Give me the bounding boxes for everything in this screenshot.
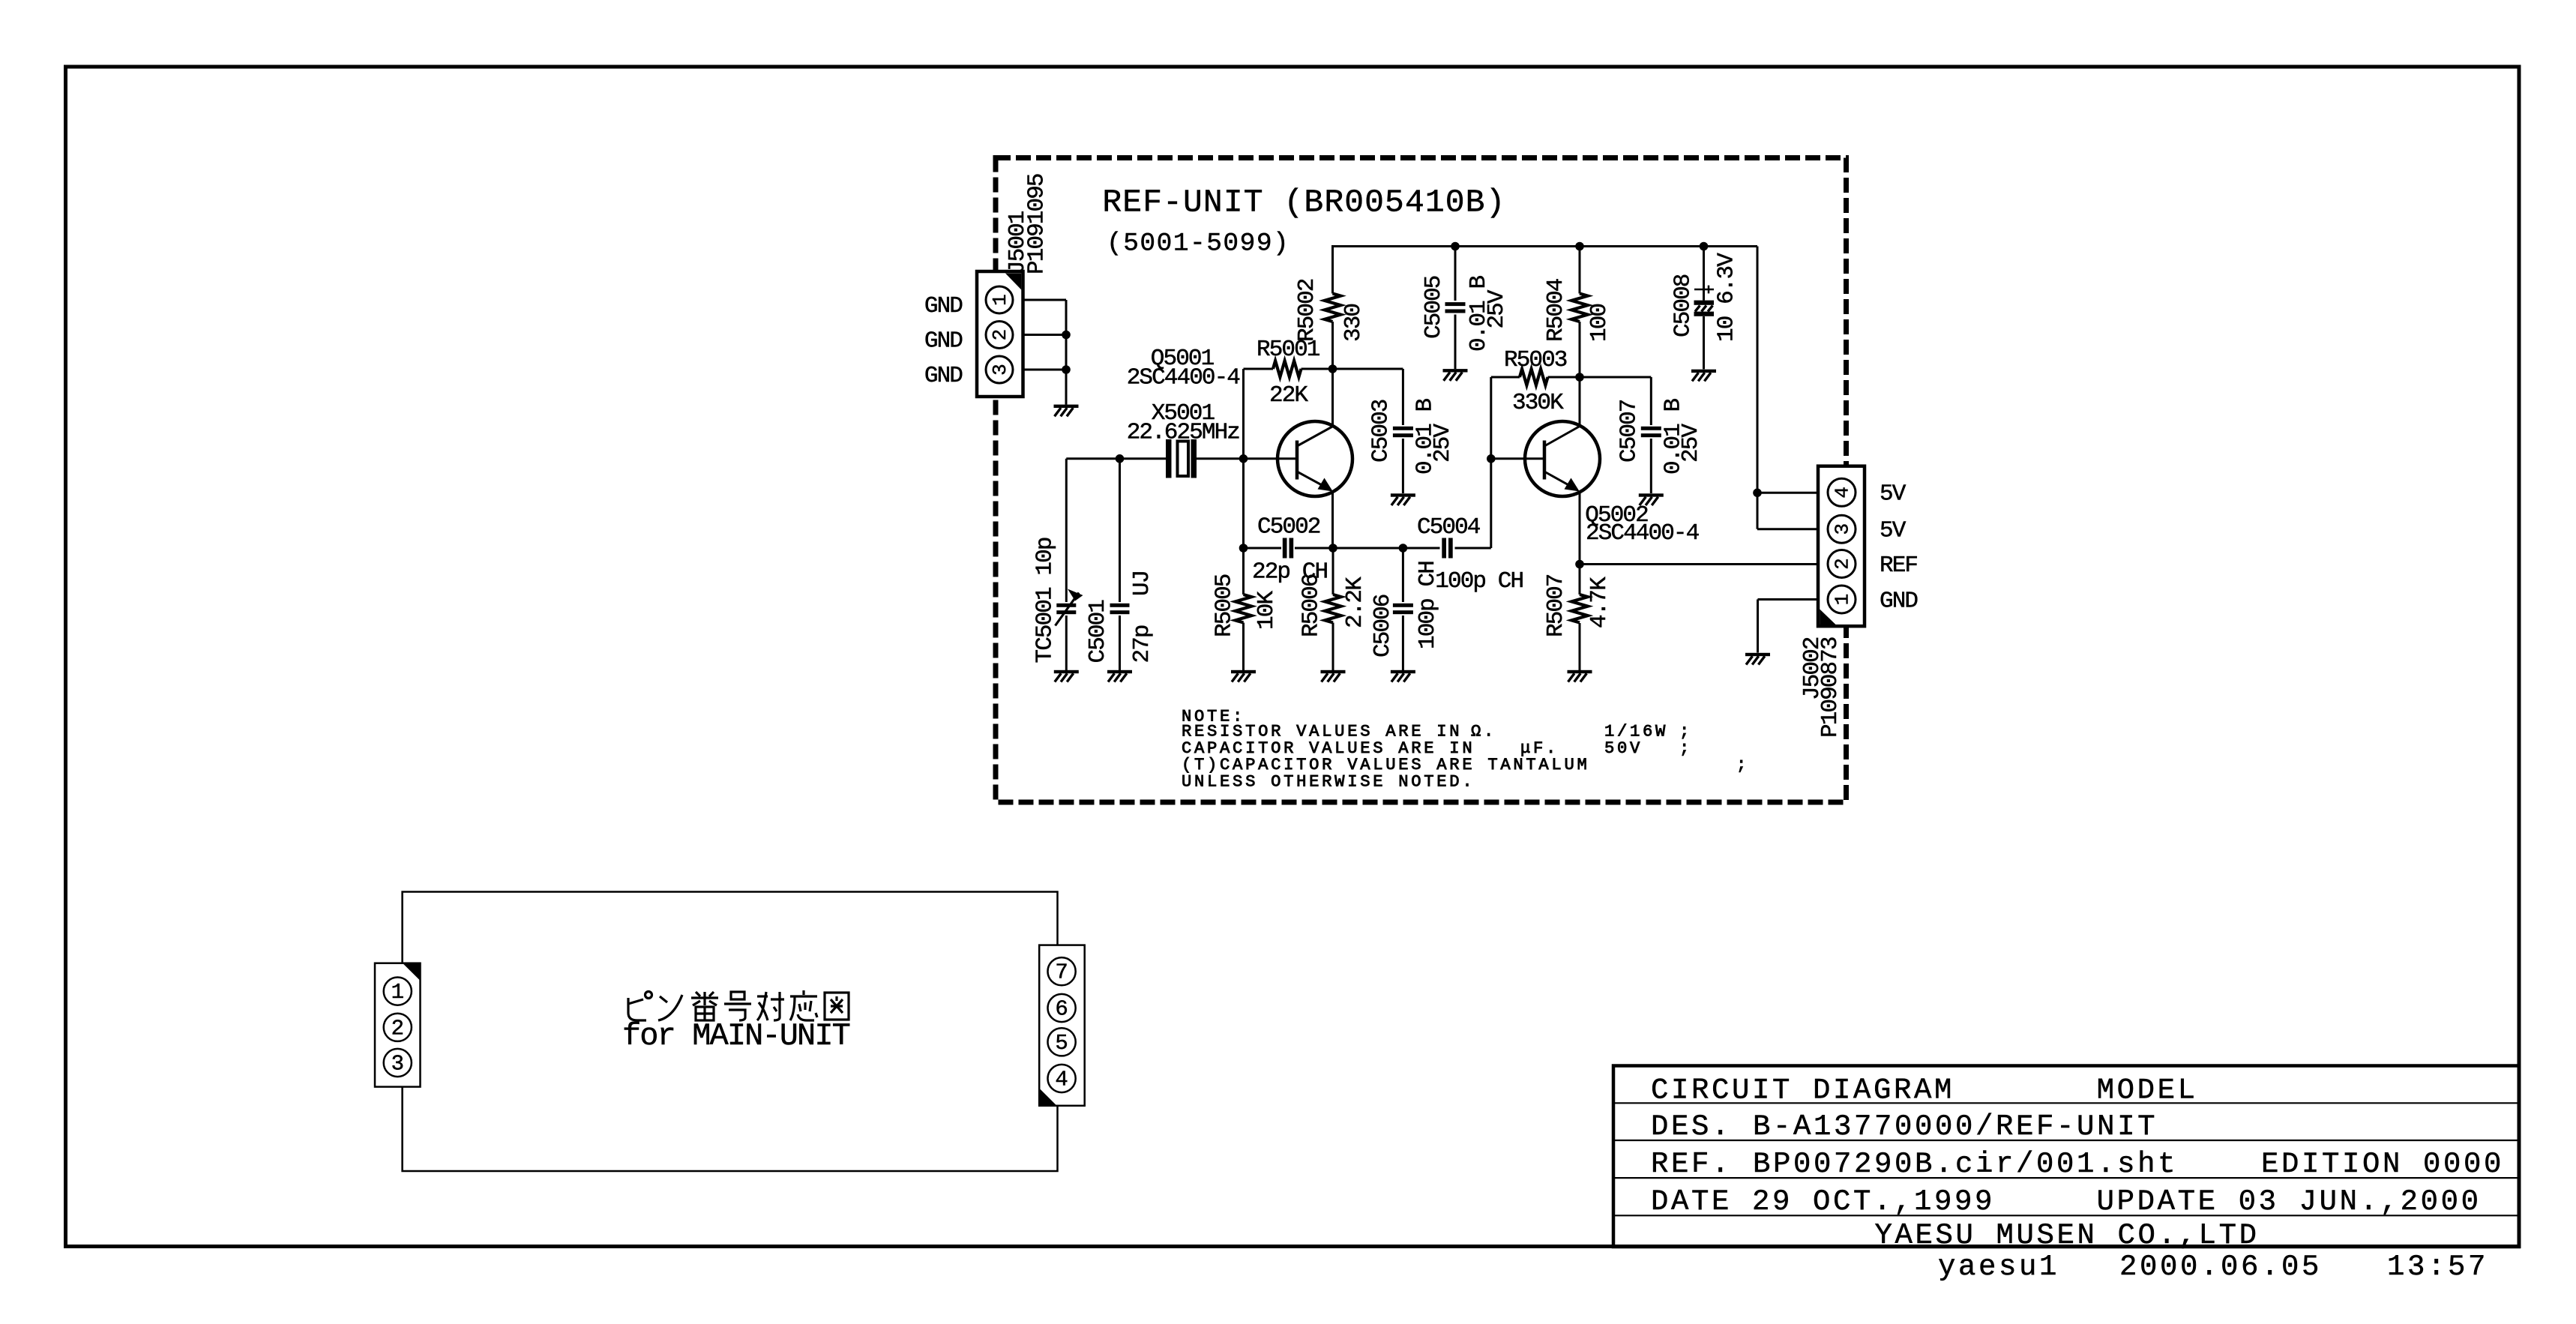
wire R5001 row bbox=[1244, 368, 1274, 370]
svg-text:R5001: R5001 bbox=[1257, 337, 1320, 363]
wire TC5001 to ground bbox=[1065, 616, 1068, 670]
node J5001 pin3 bbox=[1062, 365, 1071, 374]
wire Q5002 emitter down to REF node bbox=[1579, 492, 1581, 565]
svg-text:50V: 50V bbox=[1604, 739, 1643, 758]
svg-text:GND: GND bbox=[1880, 588, 1918, 614]
node C5006 top bbox=[1399, 544, 1408, 553]
svg-text:10K: 10K bbox=[1254, 591, 1280, 630]
svg-text:R5005: R5005 bbox=[1212, 574, 1238, 637]
resistor R5003 bbox=[1504, 347, 1567, 416]
wire J5001 pin3 bbox=[1013, 369, 1066, 371]
wire rail right drop to pin4 bbox=[1757, 247, 1759, 493]
svg-text:6: 6 bbox=[1055, 997, 1068, 1022]
wire R5004 bottom to node bbox=[1579, 322, 1581, 377]
svg-text:for MAIN-UNIT: for MAIN-UNIT bbox=[622, 1018, 850, 1054]
wire collector node down to Q5001 collector bbox=[1331, 369, 1334, 427]
capacitor C5004 bbox=[1417, 514, 1523, 595]
REF-UNIT dashed boundary box bbox=[996, 158, 1847, 803]
svg-text:3: 3 bbox=[1832, 523, 1854, 535]
wire rail to R5002 bbox=[1331, 245, 1334, 294]
resistor R5001 bbox=[1257, 337, 1320, 409]
ground under C5007 bbox=[1639, 493, 1664, 505]
svg-text:(5001-5099): (5001-5099) bbox=[1107, 229, 1289, 258]
capacitor C5005 bbox=[1421, 275, 1510, 352]
node rail/R5004 bbox=[1575, 242, 1584, 251]
wire pin1 GND feed bbox=[1758, 598, 1828, 601]
wire pin1 to ground bbox=[1757, 600, 1759, 653]
svg-text:GND: GND bbox=[924, 363, 963, 389]
node crystal/C5001 bbox=[1116, 454, 1125, 463]
svg-text:27p: 27p bbox=[1129, 625, 1155, 663]
wire C5008 to ground bbox=[1703, 316, 1705, 369]
svg-text:2: 2 bbox=[989, 329, 1011, 341]
ground under C5006 bbox=[1391, 670, 1415, 682]
svg-text:yaesu1: yaesu1 bbox=[1938, 1251, 2059, 1284]
svg-text:;: ; bbox=[1679, 722, 1692, 741]
node R5001/R5002/collector bbox=[1328, 364, 1337, 373]
wire base node to Q5001 base bbox=[1244, 457, 1298, 460]
svg-text:C5002: C5002 bbox=[1257, 514, 1320, 541]
ground under C5003 bbox=[1391, 493, 1415, 505]
wire J5001 pin1 down to ground bbox=[1065, 300, 1068, 405]
wire drop to pin3 bbox=[1757, 493, 1759, 529]
wire C5005 top lead bbox=[1454, 247, 1457, 301]
svg-text:UJ: UJ bbox=[1129, 571, 1155, 596]
note text block bbox=[1182, 707, 1749, 791]
svg-text:1/16W: 1/16W bbox=[1604, 722, 1668, 741]
connector CN right (main unit) bbox=[1039, 945, 1085, 1106]
transistor Q5001 bbox=[1127, 346, 1352, 496]
svg-text:C5004: C5004 bbox=[1417, 514, 1481, 541]
svg-text:330K: 330K bbox=[1512, 390, 1564, 416]
node rail/C5008 bbox=[1700, 242, 1709, 251]
transistor Q5002 bbox=[1525, 421, 1700, 547]
wire R5004 top lead bbox=[1579, 245, 1581, 294]
svg-text:4: 4 bbox=[1055, 1068, 1068, 1092]
title block row lines bbox=[1613, 1102, 2519, 1104]
wire collector node to C5003 bbox=[1333, 368, 1403, 370]
wire base node down to C5002 row bbox=[1242, 459, 1245, 548]
node rail drop/pin4 bbox=[1753, 489, 1762, 498]
svg-text:330: 330 bbox=[1340, 304, 1367, 342]
svg-text:4: 4 bbox=[1832, 487, 1854, 499]
svg-text:22.625MHz: 22.625MHz bbox=[1127, 420, 1240, 446]
svg-text:2: 2 bbox=[391, 1016, 404, 1041]
svg-text:TC5001 10p: TC5001 10p bbox=[1032, 538, 1059, 663]
svg-text:BP007290B.cir/001.sht: BP007290B.cir/001.sht bbox=[1753, 1148, 2178, 1181]
svg-text:100p CH: 100p CH bbox=[1415, 562, 1441, 649]
svg-text:13:57: 13:57 bbox=[2387, 1251, 2488, 1284]
wire R5007 to ground bbox=[1579, 623, 1581, 670]
ground under C5008 bbox=[1691, 370, 1716, 382]
svg-text:REF-UNIT (BR005410B): REF-UNIT (BR005410B) bbox=[1102, 184, 1505, 221]
wire R5006 top lead bbox=[1332, 548, 1334, 595]
svg-text:2: 2 bbox=[1832, 558, 1854, 570]
svg-text:CIRCUIT DIAGRAM: CIRCUIT DIAGRAM bbox=[1651, 1074, 1954, 1107]
svg-text:YAESU MUSEN CO.,LTD: YAESU MUSEN CO.,LTD bbox=[1875, 1219, 2260, 1252]
svg-text:C5007: C5007 bbox=[1616, 400, 1642, 463]
capacitor C5006 bbox=[1370, 562, 1441, 658]
svg-text:1: 1 bbox=[989, 294, 1011, 306]
wire R5005 top lead bbox=[1242, 548, 1245, 595]
caption pin-number correspondence (kanji) bbox=[628, 990, 849, 1020]
resistor R5006 bbox=[1298, 574, 1368, 637]
wire Q5002 base node up to R5003 bbox=[1490, 377, 1492, 459]
capacitor C5001 bbox=[1085, 571, 1155, 663]
svg-text:MODEL: MODEL bbox=[2097, 1074, 2198, 1107]
svg-text:25V: 25V bbox=[1484, 289, 1510, 328]
svg-text:B-A13770000/REF-UNIT: B-A13770000/REF-UNIT bbox=[1753, 1110, 2158, 1143]
svg-text:UPDATE 03 JUN.,2000: UPDATE 03 JUN.,2000 bbox=[2097, 1185, 2482, 1218]
svg-text:10 6.3V: 10 6.3V bbox=[1714, 253, 1740, 342]
wire pin4 feed bbox=[1757, 492, 1828, 494]
wire R5003 left lead bbox=[1491, 376, 1520, 379]
node rail/C5005 bbox=[1451, 242, 1460, 251]
trimmer capacitor TC5001 bbox=[1032, 538, 1083, 663]
svg-text:R5004: R5004 bbox=[1543, 278, 1569, 342]
wire J5001 pin2 bbox=[1013, 334, 1066, 336]
wire R5004 node down to Q5002 collector bbox=[1579, 377, 1581, 427]
svg-text:DATE 29 OCT.,1999: DATE 29 OCT.,1999 bbox=[1651, 1185, 1995, 1218]
svg-text:Ω.: Ω. bbox=[1471, 722, 1496, 741]
svg-text:R5003: R5003 bbox=[1504, 347, 1567, 373]
svg-text:2SC4400-4: 2SC4400-4 bbox=[1127, 365, 1241, 391]
svg-text:DES.: DES. bbox=[1651, 1110, 1732, 1143]
crystal X5001 bbox=[1127, 400, 1240, 478]
wire J5001 pin1 bbox=[1013, 299, 1066, 301]
svg-text:C5005: C5005 bbox=[1421, 276, 1447, 339]
ground near J5002 pin1 bbox=[1745, 653, 1770, 665]
node C5002 left bbox=[1239, 544, 1248, 553]
wire C5008 top lead bbox=[1703, 247, 1705, 301]
svg-text:3: 3 bbox=[989, 364, 1011, 376]
svg-text:REF: REF bbox=[1880, 553, 1917, 579]
svg-text:100p CH: 100p CH bbox=[1435, 568, 1523, 595]
svg-text:1: 1 bbox=[1832, 594, 1854, 606]
connector J5001 bbox=[977, 174, 1050, 397]
wire C5003 to ground bbox=[1402, 439, 1404, 493]
svg-text:25V: 25V bbox=[1678, 424, 1704, 463]
svg-text:;: ; bbox=[1679, 739, 1692, 758]
node base Q5001 bbox=[1239, 454, 1248, 463]
wire C5005 to ground bbox=[1454, 315, 1457, 370]
wire R5006 to ground bbox=[1332, 623, 1334, 671]
node C5002 right/emitter bbox=[1328, 544, 1337, 553]
wire C5003 top lead from R5001 row bbox=[1402, 369, 1404, 425]
wire C5006 to C5004 bbox=[1403, 547, 1439, 550]
svg-text:22p CH: 22p CH bbox=[1252, 559, 1328, 586]
svg-text:3: 3 bbox=[391, 1052, 404, 1077]
wire C5002 row to C5006 bbox=[1333, 547, 1403, 550]
wire top supply rail bbox=[1333, 245, 1758, 247]
svg-text:2000.06.05: 2000.06.05 bbox=[2119, 1251, 2322, 1284]
svg-text:EDITION 0000: EDITION 0000 bbox=[2261, 1148, 2504, 1181]
wire C5006 to ground bbox=[1402, 616, 1404, 670]
ground under C5001 bbox=[1107, 670, 1132, 682]
svg-text:C5008: C5008 bbox=[1670, 274, 1697, 337]
ground under J5001 bbox=[1054, 405, 1079, 417]
svg-text:5V: 5V bbox=[1880, 481, 1907, 508]
wire pin3 feed bbox=[1757, 528, 1828, 530]
wire C5002 row left bbox=[1244, 547, 1282, 550]
svg-text:1: 1 bbox=[391, 980, 404, 1005]
wire C5002 row right bbox=[1295, 547, 1333, 550]
svg-text:7: 7 bbox=[1055, 960, 1068, 985]
svg-text:100: 100 bbox=[1586, 304, 1613, 342]
title block box bbox=[1613, 1066, 2519, 1248]
capacitor C5007 bbox=[1616, 398, 1704, 475]
wire REF node to pin2 bbox=[1580, 563, 1828, 565]
svg-text:C5003: C5003 bbox=[1367, 400, 1394, 463]
svg-text:P1091095: P1091095 bbox=[1024, 174, 1050, 274]
svg-text:22K: 22K bbox=[1269, 382, 1308, 409]
wire C5007 to ground bbox=[1650, 439, 1652, 493]
capacitor C5008 electrolytic bbox=[1670, 253, 1740, 342]
svg-text:5: 5 bbox=[1055, 1031, 1068, 1056]
resistor R5004 bbox=[1543, 278, 1613, 342]
wire crystal right lead to base node bbox=[1197, 457, 1244, 460]
node base Q5002 bbox=[1487, 454, 1496, 463]
wire C5006 top lead bbox=[1402, 548, 1404, 602]
node J5001 pin2 bbox=[1062, 331, 1071, 340]
wire C5001 to ground bbox=[1119, 616, 1121, 670]
svg-text:GND: GND bbox=[924, 293, 963, 319]
wire R5001 left end down to base node bbox=[1242, 369, 1245, 459]
svg-text:REF.: REF. bbox=[1651, 1148, 1732, 1181]
svg-text:4.7K: 4.7K bbox=[1586, 577, 1613, 628]
resistor R5002 bbox=[1294, 279, 1367, 342]
svg-text:25V: 25V bbox=[1430, 424, 1456, 463]
svg-text:5V: 5V bbox=[1880, 518, 1907, 544]
svg-text:RESISTOR VALUES ARE IN: RESISTOR VALUES ARE IN bbox=[1182, 722, 1462, 741]
resistor R5007 bbox=[1543, 574, 1613, 637]
svg-text:R5002: R5002 bbox=[1294, 279, 1320, 342]
wire R5007 top lead bbox=[1579, 565, 1581, 595]
capacitor C5003 bbox=[1367, 398, 1456, 475]
node R5003/R5004 bbox=[1575, 373, 1584, 382]
pin correspondence outer box bbox=[403, 892, 1058, 1172]
svg-text:UNLESS OTHERWISE NOTED.: UNLESS OTHERWISE NOTED. bbox=[1182, 773, 1475, 792]
wire R5003 right lead bbox=[1548, 376, 1580, 379]
svg-text:2SC4400-4: 2SC4400-4 bbox=[1586, 520, 1700, 547]
wire C5004 corner up to Q5002 base node bbox=[1490, 459, 1492, 548]
svg-text:R5007: R5007 bbox=[1543, 574, 1569, 637]
ground under R5006 bbox=[1321, 670, 1346, 682]
svg-text:P1090873: P1090873 bbox=[1817, 637, 1844, 738]
ground under TC5001 bbox=[1054, 670, 1079, 682]
wire C5004 right lead bbox=[1455, 547, 1491, 550]
connector J5002 bbox=[1799, 466, 1865, 738]
wire R5002 to collector node bbox=[1331, 322, 1334, 369]
node emitter Q5002/REF bbox=[1575, 560, 1584, 569]
svg-text:C5001: C5001 bbox=[1085, 600, 1111, 663]
wire Q5001 emitter down to C5002 row bbox=[1331, 492, 1334, 548]
svg-text:2.2K: 2.2K bbox=[1342, 577, 1368, 628]
wire crystal left lead bbox=[1120, 457, 1167, 460]
wire node to C5007 bbox=[1580, 376, 1651, 379]
wire R5005 to ground bbox=[1242, 623, 1245, 671]
wire C5001 branch bbox=[1119, 459, 1121, 602]
resistor R5005 bbox=[1212, 574, 1280, 637]
capacitor C5002 bbox=[1252, 514, 1328, 586]
svg-text:GND: GND bbox=[924, 328, 963, 355]
connector CN left (main unit) bbox=[375, 963, 421, 1087]
ground under R5005 bbox=[1231, 670, 1256, 682]
svg-text:C5006: C5006 bbox=[1370, 595, 1396, 658]
wire TC5001 branch corner bbox=[1066, 457, 1119, 460]
ground under C5005 bbox=[1443, 369, 1468, 381]
wire Q5002 base node to base bbox=[1491, 457, 1544, 460]
ground under R5007 bbox=[1568, 670, 1592, 682]
svg-text:;: ; bbox=[1736, 756, 1749, 774]
svg-text:(T)CAPACITOR VALUES ARE TANTAL: (T)CAPACITOR VALUES ARE TANTALUM bbox=[1182, 756, 1589, 774]
